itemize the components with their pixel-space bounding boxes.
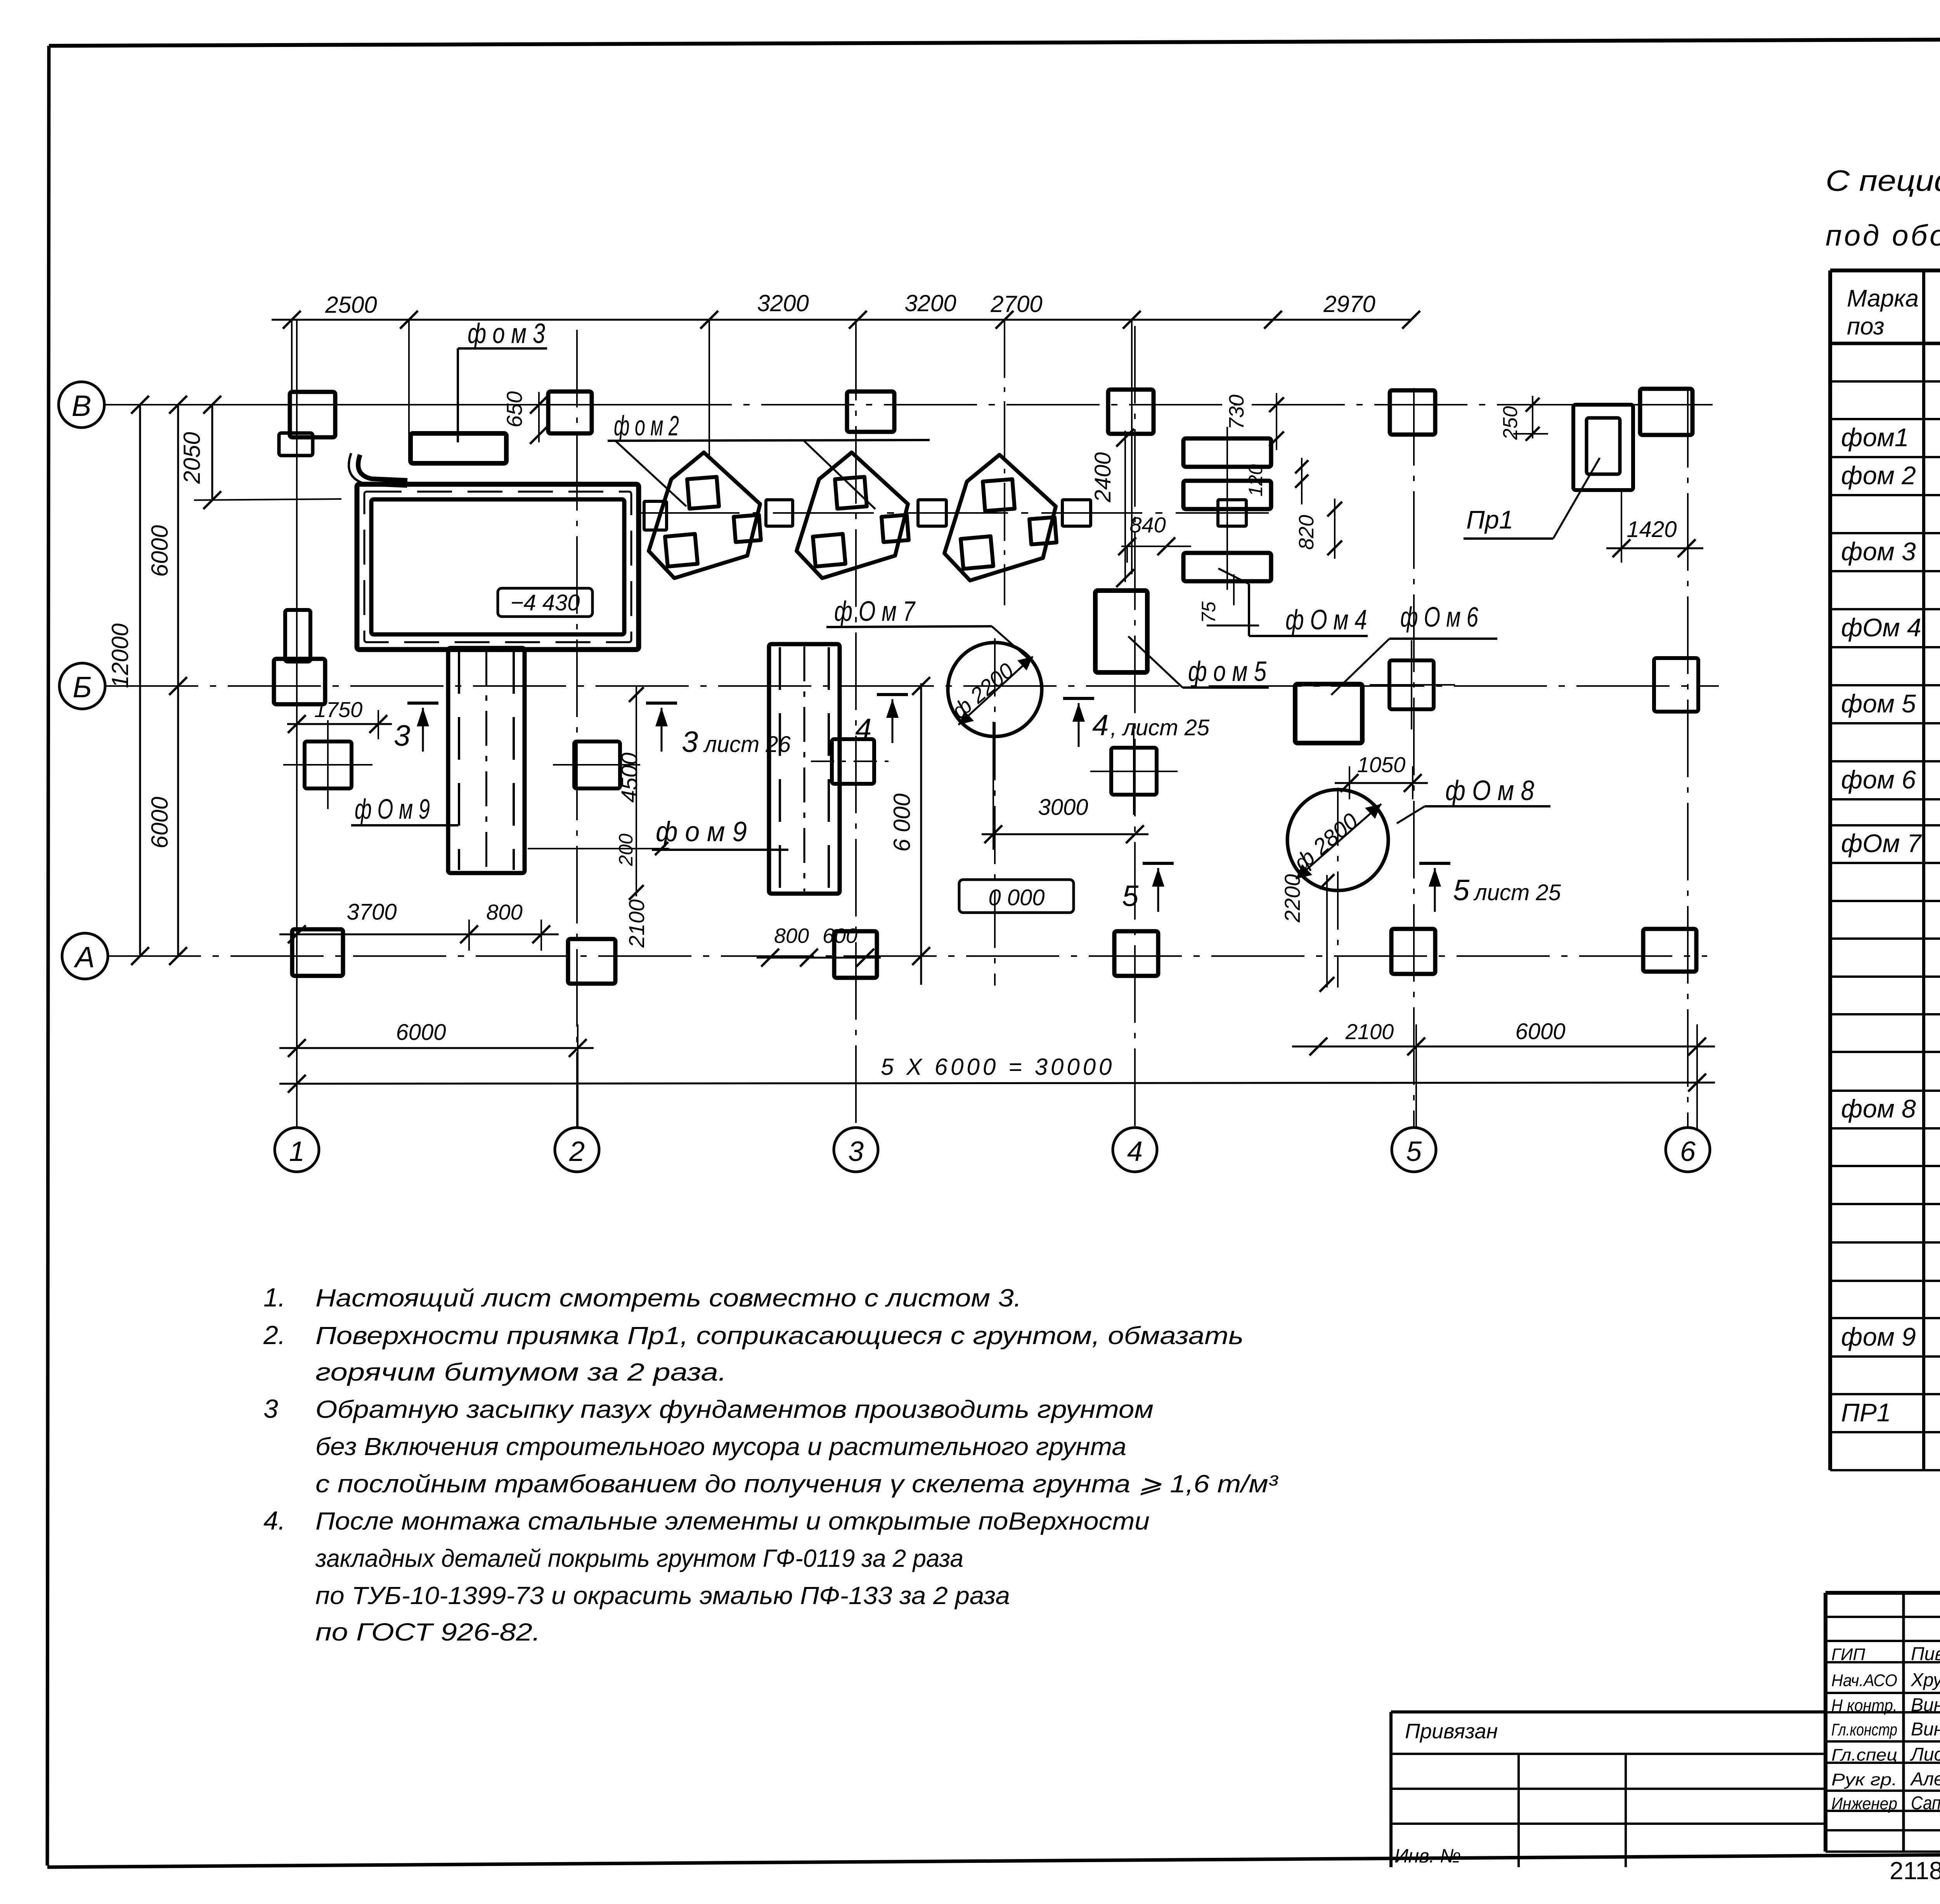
foundation фом4 upper	[1183, 438, 1271, 467]
foundation фом9 rail 2	[769, 644, 840, 894]
column axis line 5	[1413, 388, 1415, 1128]
svg-text:без Включения строительного: без Включения строительного мусора и рас…	[315, 1433, 1126, 1460]
svg-text:Хрупало: Хрупало	[1911, 1670, 1940, 1691]
dimension 800 / 600	[757, 924, 881, 967]
svg-text:Гл.констр: Гл.констр	[1831, 1720, 1897, 1739]
svg-text:Инженер: Инженер	[1831, 1794, 1897, 1813]
svg-text:3: 3	[848, 1136, 864, 1167]
dimension 840	[1118, 513, 1191, 563]
svg-text:5: 5	[1453, 874, 1470, 907]
svg-text:4.: 4.	[263, 1506, 286, 1535]
svg-text:1.: 1.	[263, 1283, 286, 1312]
dimension 2200 vertical	[1280, 874, 1334, 992]
svg-text:Н контр.: Н контр.	[1831, 1696, 1897, 1715]
svg-text:650: 650	[502, 391, 527, 427]
svg-text:3700: 3700	[346, 899, 397, 925]
pad on А #3	[834, 931, 877, 978]
unit row centreline	[639, 512, 1269, 514]
svg-text:2970: 2970	[1323, 291, 1375, 317]
pad on А #5	[1391, 929, 1435, 974]
svg-text:75: 75	[1198, 601, 1219, 623]
foundation фом6	[1295, 684, 1362, 743]
svg-text:фом 8: фом 8	[1841, 1094, 1916, 1123]
svg-text:фом1: фом1	[1841, 423, 1909, 452]
column bubble 4	[1113, 1128, 1157, 1172]
svg-text:Настоящий лист смотреть с: Настоящий лист смотреть совместно с лист…	[315, 1284, 1022, 1312]
svg-text:5: 5	[1406, 1136, 1422, 1167]
dimension 2400	[1090, 429, 1134, 587]
label фом 9 (second)	[652, 816, 788, 850]
svg-text:1: 1	[289, 1136, 305, 1167]
axis row В circle	[59, 382, 104, 428]
priyamok Пр1	[1573, 405, 1633, 490]
foundation фом2 unit a	[649, 452, 761, 578]
svg-text:2400: 2400	[1090, 452, 1115, 502]
svg-text:4500: 4500	[617, 752, 642, 802]
foundation фом3	[411, 433, 506, 463]
svg-text:3: 3	[682, 726, 698, 759]
stamp grid	[1826, 1593, 1940, 1852]
connector pad d	[1062, 500, 1091, 526]
section mark 3	[394, 703, 438, 752]
label фОм7	[826, 596, 1032, 662]
dimension 730	[1225, 393, 1284, 450]
svg-text:ф О м 4: ф О м 4	[1285, 605, 1367, 636]
copied by	[1890, 1857, 1940, 1885]
column axis line 2	[576, 330, 578, 1128]
foundation фом4 lower	[1183, 553, 1271, 581]
svg-text:730: 730	[1225, 395, 1248, 430]
svg-text:Марка: Марка	[1847, 285, 1919, 312]
axis line Б	[105, 685, 1719, 687]
pad on Б near column 6	[1654, 658, 1698, 712]
label фом2 with leaders	[608, 411, 930, 509]
svg-text:горячим битумом за 2 раза.: горячим битумом за 2 раза.	[315, 1358, 727, 1386]
column bubble 2	[555, 1128, 599, 1172]
column axis line 6	[1687, 390, 1689, 1128]
svg-text:12000: 12000	[107, 624, 133, 688]
pad on В at column 3	[847, 392, 894, 432]
svg-text:А: А	[74, 941, 95, 974]
table row: ПР1	[1841, 1398, 1940, 1427]
label фом6	[1331, 602, 1497, 695]
svg-text:по ГОСТ 926-82.: по ГОСТ 926-82.	[315, 1618, 540, 1646]
foundation фом1 pit outer wall	[357, 484, 639, 650]
svg-text:6000: 6000	[147, 525, 173, 577]
svg-text:2100: 2100	[1345, 1019, 1394, 1044]
svg-text:ф О м 7: ф О м 7	[834, 596, 916, 627]
foundation фом4 middle	[1183, 481, 1271, 509]
svg-text:840: 840	[1129, 513, 1166, 537]
svg-text:ф о м 2: ф о м 2	[614, 411, 679, 442]
pad on А #1	[292, 929, 343, 976]
dimension 650	[502, 391, 548, 444]
axis row Б circle	[59, 663, 105, 709]
foundation фом7 circle	[947, 638, 1042, 986]
svg-text:Привязан: Привязан	[1405, 1720, 1498, 1743]
фом4 stack centreline	[1226, 427, 1228, 590]
svg-text:120: 120	[1245, 464, 1266, 497]
pad on В near column 6	[1640, 389, 1692, 435]
label фом 9 (first)	[351, 794, 458, 825]
svg-text:2700: 2700	[990, 291, 1042, 317]
svg-text:2500: 2500	[325, 292, 377, 318]
svg-text:4: 4	[1127, 1136, 1143, 1167]
svg-text:лист 26: лист 26	[703, 732, 791, 757]
label фОм8	[1397, 775, 1550, 823]
dimension 1750	[287, 697, 392, 739]
svg-text:ф о м 5: ф о м 5	[1188, 656, 1267, 687]
svg-text:Гл.спец: Гл.спец	[1831, 1746, 1897, 1765]
svg-text:, лист 25: , лист 25	[1110, 715, 1210, 740]
svg-text:820: 820	[1295, 515, 1318, 550]
svg-text:фом 9: фом 9	[1841, 1322, 1916, 1351]
section mark 4	[855, 695, 908, 746]
column bubble 5	[1392, 1128, 1436, 1172]
axis line А	[108, 955, 1707, 957]
dimension 6000/6000 vertical	[147, 396, 187, 965]
svg-text:фОм 7: фОм 7	[1841, 829, 1922, 858]
column bubble 6	[1666, 1128, 1710, 1172]
column bubble 1	[275, 1128, 319, 1172]
svg-text:Винклер: Винклер	[1911, 1719, 1940, 1740]
svg-text:2100: 2100	[624, 899, 649, 948]
svg-text:Пивторак: Пивторак	[1911, 1644, 1940, 1665]
foundation фом1 pit wall centre dashed	[364, 492, 631, 642]
level mark −4 430	[498, 588, 592, 617]
svg-text:6000: 6000	[1515, 1019, 1565, 1044]
dimension 250	[1499, 396, 1548, 441]
level mark 0 000	[959, 880, 1074, 913]
pad row middle 2	[553, 742, 640, 788]
svg-text:250: 250	[1499, 406, 1522, 440]
svg-text:3200: 3200	[757, 290, 809, 316]
dimension 2100 vertical left	[624, 899, 649, 948]
svg-text:6: 6	[1680, 1136, 1696, 1167]
label фОм4	[1218, 568, 1368, 636]
svg-text:Лисичкин: Лисичкин	[1910, 1745, 1940, 1765]
curved hook at pit corner	[358, 455, 407, 480]
dimension 5 X 6000 = 30000	[279, 1054, 1715, 1093]
table row: фом5	[1841, 689, 1940, 718]
table row: фом4	[1841, 613, 1940, 642]
table row: фом2	[1841, 461, 1940, 490]
svg-text:1420: 1420	[1626, 517, 1677, 542]
svg-text:2: 2	[569, 1136, 585, 1167]
table row: фом3	[1841, 537, 1940, 566]
svg-text:21181- 02: 21181- 02	[1890, 1857, 1940, 1885]
svg-text:ГИП: ГИП	[1831, 1645, 1865, 1664]
svg-text:800: 800	[774, 924, 809, 948]
svg-text:Поверхности приямка Пр1, со: Поверхности приямка Пр1, соприкасающиеся…	[315, 1322, 1244, 1350]
svg-text:600: 600	[823, 924, 857, 948]
svg-text:5: 5	[1122, 880, 1139, 913]
connector pad b	[766, 500, 793, 526]
foundation фом1 pit inner wall	[371, 499, 624, 634]
pad on В at column 5	[1390, 390, 1435, 435]
svg-text:поз: поз	[1847, 313, 1885, 340]
pad on А #2	[568, 939, 615, 984]
svg-text:с послойным трамбованием д: с послойным трамбованием до получения γ …	[315, 1470, 1278, 1498]
table row: фом8	[1841, 1094, 1940, 1123]
svg-text:4: 4	[1092, 709, 1109, 742]
svg-text:3: 3	[394, 719, 410, 752]
svg-text:ф о м 9: ф о м 9	[656, 816, 747, 847]
svg-text:Нач.АСО: Нач.АСО	[1831, 1671, 1897, 1690]
svg-text:2200: 2200	[1280, 874, 1304, 923]
svg-text:под оборудование: под оборудование	[1826, 219, 1940, 252]
pad on В at column 1 (stepped)	[290, 392, 335, 437]
svg-text:6000: 6000	[147, 797, 173, 848]
label фом3	[458, 318, 547, 442]
dimension 3000	[982, 722, 1148, 850]
pad on rail2	[811, 739, 896, 784]
svg-text:1750: 1750	[314, 697, 363, 722]
svg-text:лист 25: лист 25	[1473, 880, 1561, 905]
svg-text:Алехова: Алехова	[1910, 1769, 1940, 1790]
spec table header	[1847, 285, 1940, 340]
dimension 3700 / 800	[279, 899, 559, 951]
svg-text:3200: 3200	[904, 290, 956, 316]
svg-text:800: 800	[486, 900, 522, 924]
section mark 4, лист 25	[1063, 698, 1210, 747]
table row: фом7	[1841, 829, 1940, 858]
svg-text:5 X 6000 = 30000: 5 X 6000 = 30000	[881, 1054, 1115, 1080]
svg-text:2050: 2050	[179, 432, 205, 484]
svg-text:3000: 3000	[1038, 795, 1088, 820]
pad row middle 1	[283, 720, 372, 809]
dimension 1050	[1335, 752, 1428, 799]
pad on В near фом3	[548, 392, 592, 433]
svg-text:Рук гр.: Рук гр.	[1831, 1770, 1897, 1789]
pad on В at column 4	[1108, 390, 1154, 434]
svg-text:В: В	[72, 390, 92, 423]
column axis line 4	[1134, 326, 1136, 1128]
connector pad a	[644, 501, 667, 530]
foundation фом9 rail 1	[448, 648, 525, 873]
foundation фом5	[1095, 591, 1147, 672]
svg-text:0 000: 0 000	[988, 885, 1044, 910]
title block outer	[1826, 1593, 1940, 1852]
column axis line 3	[855, 323, 857, 1128]
svg-text:фом 6: фом 6	[1841, 765, 1916, 794]
foundation фом2 unit c	[944, 455, 1057, 580]
dimension 2100 / 6000 bottom right	[1292, 1019, 1715, 1129]
svg-text:Пр1: Пр1	[1466, 505, 1513, 534]
stamp names	[1831, 1644, 1940, 1814]
svg-text:3: 3	[263, 1394, 278, 1424]
pad on Б at column 5	[1370, 640, 1455, 729]
foundation фом2 unit b	[797, 452, 909, 578]
svg-text:Б: Б	[73, 671, 92, 704]
svg-text:по ТУБ-10-1399-73 и окрасит: по ТУБ-10-1399-73 и окрасить эмалью ПФ-1…	[315, 1582, 1010, 1609]
table row: фом1	[1841, 423, 1940, 452]
svg-text:закладных деталей покрыть г: закладных деталей покрыть грунтом ГФ-011…	[315, 1544, 963, 1572]
spec table grid	[1830, 270, 1940, 1470]
column axis line 1	[296, 319, 298, 1128]
axis line В	[104, 404, 639, 405]
dimension 4500 vertical	[617, 686, 644, 900]
svg-text:ф О м 8: ф О м 8	[1445, 775, 1534, 806]
notes list	[263, 1283, 1278, 1646]
section mark 5	[1122, 863, 1174, 913]
section mark 5, лист 25	[1419, 863, 1561, 912]
table row: фом6	[1841, 765, 1940, 794]
dimension chain top (2500 / 3200 / 3200 / 2700 / 2970)	[272, 290, 1420, 435]
svg-text:6000: 6000	[396, 1020, 446, 1045]
dimension 120	[1245, 458, 1308, 504]
privyazan box	[1391, 1712, 1826, 1867]
foundation фом8 circle	[1287, 788, 1388, 988]
connector pad c	[918, 500, 946, 526]
table row: фом9	[1841, 1322, 1940, 1351]
dimension 1420	[1606, 490, 1703, 563]
dimension 12000 vertical	[107, 396, 149, 965]
column bubble 3	[834, 1128, 878, 1172]
svg-text:фом 2: фом 2	[1841, 461, 1916, 490]
label Пр1	[1464, 458, 1600, 539]
svg-text:ф о м 3: ф о м 3	[468, 318, 545, 349]
label фом5	[1128, 636, 1269, 688]
axis row А circle	[62, 933, 108, 979]
svg-text:фОм 4: фОм 4	[1841, 613, 1921, 642]
svg-text:−4 430: −4 430	[510, 590, 580, 615]
svg-text:6 000: 6 000	[889, 793, 915, 852]
svg-text:Инв. №: Инв. №	[1394, 1845, 1461, 1867]
svg-text:2.: 2.	[263, 1320, 286, 1350]
svg-text:ф О м 9: ф О м 9	[355, 794, 430, 825]
svg-text:1050: 1050	[1357, 752, 1406, 777]
section mark 3, лист 26	[646, 703, 791, 759]
svg-text:фом 3: фом 3	[1841, 537, 1916, 566]
pad on Б at column 1 (stepped)	[285, 610, 310, 662]
dimension 200	[528, 833, 669, 866]
svg-text:4: 4	[855, 713, 871, 746]
svg-text:200: 200	[615, 833, 637, 866]
svg-text:После монтажа стальные эле: После монтажа стальные элементы и открыт…	[315, 1507, 1150, 1535]
svg-text:ПР1: ПР1	[1841, 1398, 1891, 1427]
connector pad e	[1218, 500, 1246, 526]
svg-text:С пецификация к схеме рас: С пецификация к схеме расположения фунда…	[1826, 165, 1940, 198]
svg-text:ф О м 6: ф О м 6	[1400, 602, 1479, 633]
dimension 6000 bottom	[279, 1020, 594, 1129]
dimension 820	[1295, 499, 1342, 559]
svg-text:Обратную засыпку пазух фун: Обратную засыпку пазух фундаментов произ…	[315, 1395, 1154, 1423]
svg-text:Винклер: Винклер	[1911, 1695, 1940, 1715]
dimension 75	[1198, 574, 1259, 625]
unit centreline hairlines	[708, 320, 710, 458]
dimension 6000 vertical (column 3)	[889, 677, 930, 985]
svg-text:Сапрошина: Сапрошина	[1911, 1793, 1940, 1814]
pad on А #6	[1643, 929, 1696, 972]
pad row middle 4	[1090, 726, 1178, 815]
dimension 2050 vertical	[179, 396, 341, 509]
svg-text:фом 5: фом 5	[1841, 689, 1916, 718]
pad on А #4	[1114, 931, 1158, 976]
